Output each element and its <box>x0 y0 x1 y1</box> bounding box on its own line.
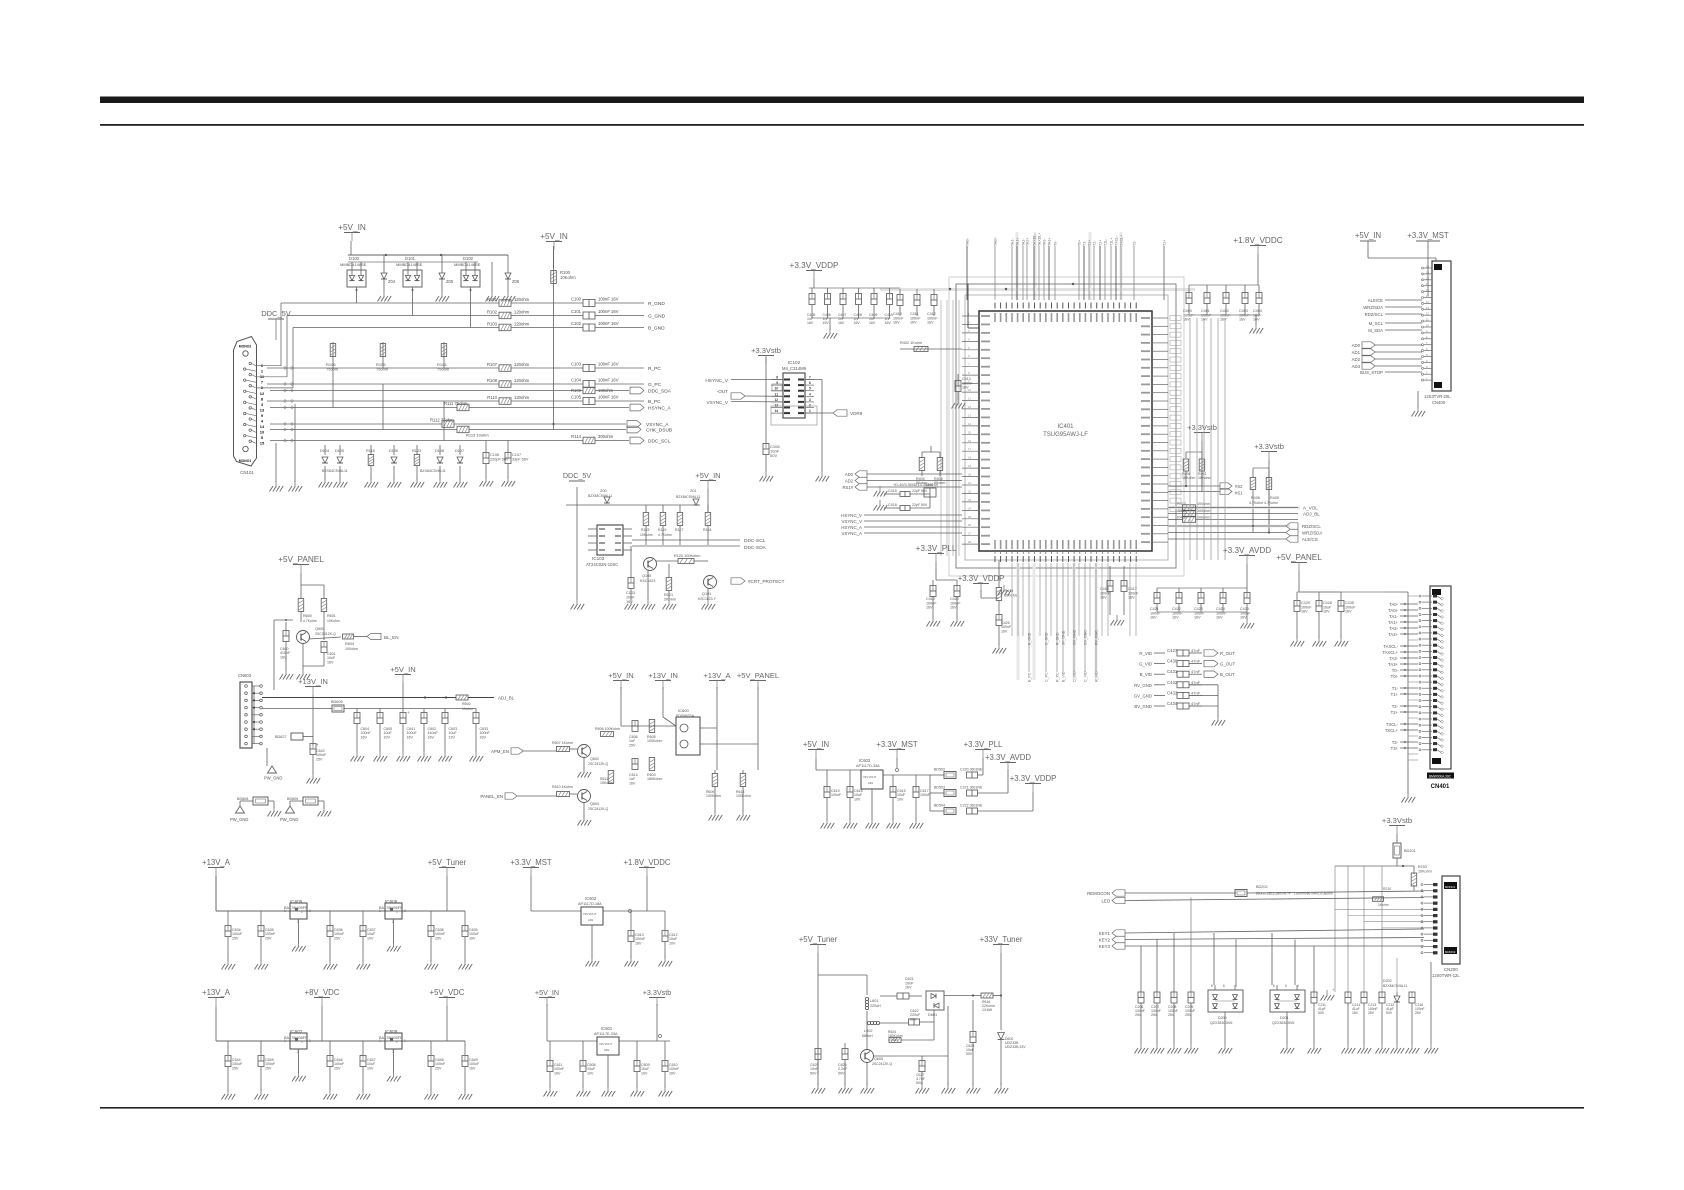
svg-text:10: 10 <box>260 430 265 435</box>
svg-text:+3.3Vstb: +3.3Vstb <box>1187 423 1217 432</box>
svg-text:BZX84C5V6L11: BZX84C5V6L11 <box>588 494 612 498</box>
svg-text:25V: 25V <box>435 936 442 940</box>
svg-text:16V: 16V <box>480 735 487 739</box>
svg-text:MONO1: MONO1 <box>239 459 252 463</box>
svg-text:AP1117D-18A: AP1117D-18A <box>578 902 602 906</box>
svg-text:M_SDA: M_SDA <box>1368 328 1383 333</box>
svg-text:26: 26 <box>968 523 972 527</box>
svg-text:16V: 16V <box>1128 596 1135 600</box>
svg-text:VIN VOUT: VIN VOUT <box>583 912 597 916</box>
svg-text:6: 6 <box>1211 984 1213 988</box>
svg-text:T2+: T2+ <box>1391 710 1399 715</box>
svg-text:+3.3V_MST: +3.3V_MST <box>510 858 552 867</box>
svg-text:25V: 25V <box>1151 1013 1158 1017</box>
svg-text:75ohm: 75ohm <box>376 367 389 372</box>
svg-text:+13V_A: +13V_A <box>202 988 231 997</box>
svg-text:MONO2: MONO2 <box>1445 950 1456 954</box>
svg-text:+5V_PANEL: +5V_PANEL <box>737 671 779 680</box>
svg-text:R118: R118 <box>703 528 711 532</box>
svg-text:VSYNC_A: VSYNC_A <box>646 422 669 428</box>
svg-text:D101: D101 <box>405 256 416 261</box>
svg-text:25V: 25V <box>232 1066 239 1070</box>
svg-text:DDC-SCL: DDC-SCL <box>744 538 766 544</box>
svg-text:LED: LED <box>1101 899 1110 904</box>
svg-text:25V: 25V <box>1135 1013 1142 1017</box>
svg-text:120ohm: 120ohm <box>514 395 530 400</box>
svg-text:CN400: CN400 <box>1432 400 1446 405</box>
svg-text:+5V_IN: +5V_IN <box>540 232 568 241</box>
svg-text:RDZ/SCL: RDZ/SCL <box>1302 524 1321 529</box>
svg-text:16V: 16V <box>1253 318 1260 322</box>
svg-text:Q100: Q100 <box>642 574 651 578</box>
svg-text:T2-: T2- <box>1133 240 1137 246</box>
svg-text:50V: 50V <box>966 1052 973 1056</box>
svg-text:B_GND: B_GND <box>648 326 665 332</box>
svg-text:24: 24 <box>968 506 972 510</box>
svg-text:9: 9 <box>776 381 778 385</box>
svg-text:T2+: T2+ <box>1163 240 1167 246</box>
svg-text:DDC_5V: DDC_5V <box>261 309 291 318</box>
svg-text:16V: 16V <box>962 386 969 390</box>
svg-text:D106: D106 <box>389 449 398 453</box>
svg-text:TA3-: TA3- <box>1389 656 1398 661</box>
svg-text:R606 100Kohm: R606 100Kohm <box>595 727 620 731</box>
svg-text:UDZ33B,33V: UDZ33B,33V <box>1005 1045 1026 1049</box>
svg-text:CN101: CN101 <box>240 470 254 475</box>
svg-text:#S2: #S2 <box>1235 484 1243 489</box>
svg-text:T1+: T1+ <box>1088 240 1092 246</box>
svg-text:R409: R409 <box>1270 496 1279 500</box>
svg-text:GV_GND: GV_GND <box>1073 629 1077 645</box>
svg-text:47nF: 47nF <box>1191 701 1201 706</box>
svg-text:R_PC: R_PC <box>648 366 661 372</box>
svg-text:G_PC: G_PC <box>648 382 662 388</box>
svg-text:50V: 50V <box>838 1071 845 1075</box>
svg-text:BMW000A,30C: BMW000A,30C <box>1429 775 1452 779</box>
svg-text:ADJ: ADJ <box>588 918 594 922</box>
svg-text:25V: 25V <box>316 757 323 761</box>
svg-text:TA2+: TA2+ <box>1026 238 1030 246</box>
svg-text:14: 14 <box>774 409 778 413</box>
svg-text:TA3+: TA3+ <box>1388 662 1398 667</box>
svg-text:BA178M09FP: BA178M09FP <box>284 906 308 910</box>
svg-text:16V: 16V <box>807 321 814 325</box>
svg-text:10Kohm: 10Kohm <box>560 275 576 280</box>
svg-text:TXCL-: TXCL- <box>1115 235 1119 246</box>
svg-text:R121: R121 <box>664 593 673 597</box>
svg-text:16V: 16V <box>927 321 934 325</box>
svg-text:-OUT: -OUT <box>717 389 728 394</box>
svg-text:WRZ/SDA: WRZ/SDA <box>1302 531 1322 536</box>
svg-text:17: 17 <box>968 447 972 451</box>
svg-text:25V: 25V <box>1168 1013 1175 1017</box>
svg-text:100nF 16V: 100nF 16V <box>598 377 619 382</box>
svg-text:+3.3V_AVDD: +3.3V_AVDD <box>1223 546 1271 555</box>
svg-text:ADJ_BL: ADJ_BL <box>1303 512 1320 517</box>
svg-text:16V: 16V <box>1239 318 1246 322</box>
svg-text:25: 25 <box>968 515 972 519</box>
svg-text:BD627: BD627 <box>275 735 287 739</box>
svg-text:5: 5 <box>809 387 811 391</box>
svg-text:R_VID: R_VID <box>1095 671 1099 682</box>
svg-text:Q602: Q602 <box>590 757 599 761</box>
svg-text:47nF: 47nF <box>1191 659 1201 664</box>
svg-text:120ohm: 120ohm <box>514 309 530 314</box>
svg-text:25V: 25V <box>1368 1011 1375 1015</box>
svg-text:10V: 10V <box>669 941 676 945</box>
svg-text:25V: 25V <box>334 936 341 940</box>
svg-text:TAXDL-: TAXDL- <box>1033 233 1037 246</box>
svg-text:13V: 13V <box>449 735 456 739</box>
svg-text:12: 12 <box>260 391 265 396</box>
svg-text:T2L+: T2L+ <box>1110 238 1114 246</box>
svg-text:220uH: 220uH <box>870 1004 881 1008</box>
svg-text:L601: L601 <box>870 999 878 1003</box>
svg-text:+3.3Vstb: +3.3Vstb <box>643 988 672 997</box>
svg-text:BZX84C5V6L11: BZX84C5V6L11 <box>1383 984 1407 988</box>
svg-text:47nF: 47nF <box>1191 648 1201 653</box>
svg-text:+5V_IN: +5V_IN <box>390 665 416 674</box>
svg-text:TXCL+: TXCL+ <box>1385 728 1399 733</box>
svg-text:KSC1623-Y: KSC1623-Y <box>698 597 717 601</box>
svg-text:10: 10 <box>774 387 778 391</box>
svg-text:+1.8V_VDDC: +1.8V_VDDC <box>1233 236 1282 245</box>
svg-text:10Kohm: 10Kohm <box>1418 869 1432 873</box>
svg-text:T2-: T2- <box>1392 704 1399 709</box>
svg-text:21: 21 <box>968 481 972 485</box>
svg-text:Z04: Z04 <box>388 279 396 284</box>
svg-text:680uH: 680uH <box>862 1034 873 1038</box>
svg-text:16V: 16V <box>361 735 368 739</box>
svg-text:IC607: IC607 <box>290 1029 303 1034</box>
svg-text:10V: 10V <box>641 1071 648 1075</box>
svg-text:T1+: T1+ <box>1391 692 1399 697</box>
svg-text:100ohm: 100ohm <box>345 647 358 651</box>
svg-text:DDC-SDA: DDC-SDA <box>744 545 767 551</box>
svg-text:Q603: Q603 <box>590 802 599 806</box>
svg-text:R610 1Kohm: R610 1Kohm <box>552 785 573 789</box>
svg-text:75ohm: 75ohm <box>326 367 339 372</box>
svg-text:BD502: BD502 <box>934 768 945 772</box>
svg-text:R110: R110 <box>487 395 497 400</box>
svg-text:ADJ: ADJ <box>604 1048 610 1052</box>
svg-text:16V: 16V <box>407 735 414 739</box>
svg-text:VDR9: VDR9 <box>850 411 863 416</box>
svg-text:BA178M05FP: BA178M05FP <box>379 1036 403 1040</box>
svg-text:TA2-: TA2- <box>1389 626 1398 631</box>
svg-text:IC603: IC603 <box>859 758 871 763</box>
svg-text:#CRT_PROTECT: #CRT_PROTECT <box>748 579 785 584</box>
svg-text:16V: 16V <box>635 941 642 945</box>
svg-text:R600: R600 <box>303 614 312 618</box>
svg-text:12S3TVR-20L: 12S3TVR-20L <box>1424 394 1451 399</box>
svg-text:+5V_PANEL: +5V_PANEL <box>278 555 324 564</box>
svg-text:IC102: IC102 <box>788 360 801 365</box>
svg-text:AD2: AD2 <box>1352 357 1361 362</box>
svg-text:19: 19 <box>968 464 972 468</box>
svg-text:REMOCON: REMOCON <box>1087 891 1110 896</box>
svg-text:MONO2: MONO2 <box>239 345 252 349</box>
svg-text:16V: 16V <box>1201 318 1208 322</box>
svg-text:100Kohm: 100Kohm <box>736 794 751 798</box>
svg-text:Q600: Q600 <box>315 627 324 631</box>
svg-text:C_VID: C_VID <box>1084 671 1088 682</box>
svg-text:1: 1 <box>809 409 811 413</box>
svg-text:R102: R102 <box>487 309 498 314</box>
svg-text:14: 14 <box>968 422 972 426</box>
svg-text:120ohm: 120ohm <box>514 362 530 367</box>
svg-text:BZX84C5V6L11: BZX84C5V6L11 <box>322 469 348 473</box>
svg-text:+3.3V_PLL: +3.3V_PLL <box>964 740 1003 749</box>
svg-text:16V: 16V <box>554 1071 561 1075</box>
svg-text:100Kohm: 100Kohm <box>706 794 721 798</box>
svg-text:TA3+: TA3+ <box>1048 238 1052 246</box>
svg-text:TA2+: TA2+ <box>1388 632 1398 637</box>
svg-text:C430: C430 <box>1167 659 1178 664</box>
svg-text:CN401: CN401 <box>1431 784 1450 790</box>
svg-text:C104: C104 <box>571 377 582 382</box>
svg-text:120ohm: 120ohm <box>514 378 530 383</box>
svg-text:C100: C100 <box>571 296 582 301</box>
svg-text:TA0-: TA0- <box>1389 602 1398 607</box>
svg-text:QZX363C5V6: QZX363C5V6 <box>1272 1021 1294 1025</box>
svg-text:100nF 16V: 100nF 16V <box>598 361 619 366</box>
svg-text:22: 22 <box>968 489 972 493</box>
svg-text:1Kohm: 1Kohm <box>1378 903 1389 907</box>
svg-text:1/16W: 1/16W <box>982 1008 993 1012</box>
svg-text:3: 3 <box>404 909 406 913</box>
svg-text:KEY1: KEY1 <box>1099 931 1111 936</box>
svg-text:R108: R108 <box>487 378 498 383</box>
svg-text:T0+: T0+ <box>1391 674 1399 679</box>
svg-text:18Kohm: 18Kohm <box>1198 476 1211 480</box>
svg-text:18: 18 <box>968 456 972 460</box>
svg-text:+3.3V_PLL: +3.3V_PLL <box>916 544 957 553</box>
svg-text:B_VID: B_VID <box>1062 671 1066 682</box>
svg-text:R_GND: R_GND <box>1056 632 1060 645</box>
svg-text:100nF 16V: 100nF 16V <box>598 296 619 301</box>
svg-text:C101: C101 <box>571 309 582 314</box>
svg-text:QZX363C5V6: QZX363C5V6 <box>1210 1021 1232 1025</box>
svg-text:R602: R602 <box>462 702 471 706</box>
svg-text:BD202: BD202 <box>1256 885 1268 889</box>
svg-text:15: 15 <box>968 430 972 434</box>
svg-text:16V: 16V <box>905 986 912 990</box>
svg-text:GV_GND: GV_GND <box>1134 693 1152 698</box>
svg-text:16V: 16V <box>823 321 830 325</box>
svg-text:C_GND: C_GND <box>1045 632 1049 645</box>
svg-text:50V: 50V <box>910 1017 917 1021</box>
svg-text:R109: R109 <box>571 388 582 393</box>
svg-text:300ohm: 300ohm <box>598 434 614 439</box>
svg-text:R123: R123 <box>412 449 421 453</box>
svg-text:BL_EN: BL_EN <box>384 635 399 640</box>
svg-text:16V: 16V <box>885 321 892 325</box>
svg-text:25V: 25V <box>435 1066 442 1070</box>
svg-text:HSYNC_V: HSYNC_V <box>705 378 728 384</box>
svg-text:D105: D105 <box>335 449 344 453</box>
svg-text:+3.3V_MST: +3.3V_MST <box>1407 231 1449 240</box>
svg-text:+13V_IN: +13V_IN <box>648 671 678 680</box>
svg-text:BA178M08FP: BA178M08FP <box>284 1036 308 1040</box>
svg-text:16V: 16V <box>1345 610 1352 614</box>
svg-text:10V: 10V <box>854 797 861 801</box>
svg-text:T0+: T0+ <box>1078 240 1082 246</box>
svg-text:B_PC: B_PC <box>1028 672 1032 682</box>
svg-text:L602: L602 <box>864 1029 872 1033</box>
svg-text:2Kohm: 2Kohm <box>664 597 676 601</box>
svg-text:25V: 25V <box>232 936 239 940</box>
svg-text:2SC2412K-Q: 2SC2412K-Q <box>872 1062 893 1066</box>
svg-text:100nF 16V: 100nF 16V <box>598 309 619 314</box>
svg-text:C102: C102 <box>571 321 582 326</box>
svg-text:R112 75ohm: R112 75ohm <box>430 418 454 423</box>
svg-text:BUS_STOP: BUS_STOP <box>1360 370 1383 375</box>
svg-text:R_OUT: R_OUT <box>1220 651 1235 656</box>
svg-text:+3.3Vstb: +3.3Vstb <box>751 346 781 355</box>
svg-text:47nF: 47nF <box>1191 680 1201 685</box>
svg-text:3: 3 <box>309 1039 311 1043</box>
svg-text:23: 23 <box>968 498 972 502</box>
svg-text:R103: R103 <box>487 321 498 326</box>
svg-text:IC103: IC103 <box>592 556 605 561</box>
svg-text:WRZ/SDA: WRZ/SDA <box>1363 305 1383 310</box>
svg-text:10V: 10V <box>587 1071 594 1075</box>
svg-text:+1.8V_VDDC: +1.8V_VDDC <box>623 858 670 867</box>
svg-text:3: 3 <box>404 1039 406 1043</box>
svg-text:C222 J601NE: C222 J601NE <box>960 804 983 808</box>
svg-text:16V: 16V <box>926 606 933 610</box>
svg-text:50V: 50V <box>770 453 777 458</box>
svg-text:47nF: 47nF <box>1191 669 1201 674</box>
svg-text:2SC2412K-Q: 2SC2412K-Q <box>588 807 609 811</box>
svg-text:MONO1: MONO1 <box>1445 885 1456 889</box>
svg-text:AD0: AD0 <box>1352 343 1361 348</box>
svg-text:AT24C02N-10SC: AT24C02N-10SC <box>586 562 618 567</box>
svg-text:T2+: T2+ <box>1099 240 1103 246</box>
svg-text:16V: 16V <box>280 655 287 659</box>
svg-text:10V: 10V <box>367 936 374 940</box>
svg-text:+5V_VDC: +5V_VDC <box>430 988 465 997</box>
svg-text:RV_GND: RV_GND <box>1134 683 1152 688</box>
svg-text:16V: 16V <box>1216 616 1223 620</box>
svg-text:+8V_VDC: +8V_VDC <box>305 988 340 997</box>
svg-text:D108: D108 <box>435 449 444 453</box>
svg-text:33pF 50V: 33pF 50V <box>512 457 529 461</box>
svg-text:+5V_IN: +5V_IN <box>535 988 559 997</box>
svg-text:1/16W: 1/16W <box>888 1038 899 1042</box>
svg-text:2: 2 <box>809 404 811 408</box>
svg-text:Z00: Z00 <box>600 489 607 493</box>
svg-text:TSUG95AWJ-LF: TSUG95AWJ-LF <box>1043 432 1088 438</box>
svg-text:+13V_A: +13V_A <box>202 858 231 867</box>
svg-text:2SC2412K-Q: 2SC2412K-Q <box>315 632 336 636</box>
svg-text:50V: 50V <box>1318 1011 1325 1015</box>
svg-text:4.7Kohm 4.7Kohm: 4.7Kohm 4.7Kohm <box>1249 501 1278 505</box>
svg-text:R113 10ohm: R113 10ohm <box>466 433 489 438</box>
svg-text:+5V_IN: +5V_IN <box>608 671 634 680</box>
svg-text:10V: 10V <box>384 735 391 739</box>
svg-text:100Kohm: 100Kohm <box>647 739 662 743</box>
svg-text:100nF: 100nF <box>920 793 931 797</box>
svg-text:100nF: 100nF <box>831 793 842 797</box>
svg-text:16V: 16V <box>1352 1011 1359 1015</box>
svg-text:TA1-: TA1- <box>1389 614 1398 619</box>
svg-text:10Kohm: 10Kohm <box>327 619 340 623</box>
svg-text:R101: R101 <box>487 297 498 302</box>
svg-text:120ohm: 120ohm <box>514 321 530 326</box>
svg-text:C431: C431 <box>1167 669 1178 674</box>
svg-text:A_VOL: A_VOL <box>1303 506 1318 511</box>
svg-text:HSYNC_V: HSYNC_V <box>841 513 862 518</box>
svg-text:22pF 50V: 22pF 50V <box>912 503 928 507</box>
svg-text:25V: 25V <box>1185 1013 1192 1017</box>
svg-text:16V: 16V <box>1100 596 1107 600</box>
svg-text:10Kohm: 10Kohm <box>640 533 653 537</box>
svg-text:7: 7 <box>809 376 811 380</box>
svg-text:180Kohm: 180Kohm <box>647 777 662 781</box>
svg-text:IC605: IC605 <box>290 899 303 904</box>
svg-text:T1-: T1- <box>1392 686 1399 691</box>
svg-text:16V: 16V <box>669 1071 676 1075</box>
svg-text:10Kohm: 10Kohm <box>600 781 613 785</box>
svg-text:16V: 16V <box>838 321 845 325</box>
svg-text:TAXCL+: TAXCL+ <box>1382 650 1398 655</box>
svg-text:RV_GND: RV_GND <box>1095 630 1099 645</box>
svg-text:FDS9933A: FDS9933A <box>676 714 695 718</box>
svg-text:ALE/CE: ALE/CE <box>1368 298 1383 303</box>
svg-text:IC606: IC606 <box>385 899 398 904</box>
svg-text:ADJ_BL: ADJ_BL <box>498 696 515 701</box>
svg-text:+5V_IN: +5V_IN <box>338 223 366 232</box>
svg-text:R402 1Kohm: R402 1Kohm <box>900 341 922 345</box>
svg-text:+5V_PANEL: +5V_PANEL <box>1276 553 1322 562</box>
svg-text:16V: 16V <box>1172 616 1179 620</box>
svg-text:RS1#: RS1# <box>843 485 854 490</box>
svg-text:+5V_Tuner: +5V_Tuner <box>428 858 467 867</box>
svg-text:+13V_IN: +13V_IN <box>298 677 328 686</box>
svg-text:C103: C103 <box>626 591 635 595</box>
svg-text:25V: 25V <box>265 936 272 940</box>
svg-text:47nF: 47nF <box>1191 690 1201 695</box>
svg-text:+3.3V_VDDP: +3.3V_VDDP <box>790 261 839 270</box>
svg-text:M_SCL: M_SCL <box>1369 321 1384 326</box>
svg-text:DDC_5V: DDC_5V <box>563 471 592 480</box>
svg-text:+33V_Tuner: +33V_Tuner <box>980 935 1023 944</box>
svg-text:R111 75ohm: R111 75ohm <box>444 401 468 406</box>
svg-text:TAXCL-: TAXCL- <box>1383 644 1398 649</box>
svg-text:C_PC: C_PC <box>1045 672 1049 682</box>
svg-text:TA3-: TA3- <box>1043 238 1047 246</box>
svg-text:ADJ: ADJ <box>868 781 874 785</box>
svg-text:IC600: IC600 <box>678 708 689 713</box>
svg-text:16V: 16V <box>629 781 636 785</box>
svg-text:C_VID: C_VID <box>1073 671 1077 682</box>
svg-text:T2-: T2- <box>1093 240 1097 246</box>
svg-text:16V: 16V <box>893 321 900 325</box>
svg-text:100nF 16V: 100nF 16V <box>598 321 619 326</box>
svg-text:TA1-: TA1- <box>1011 238 1015 246</box>
svg-text:VSYNC_V: VSYNC_V <box>842 519 863 524</box>
svg-text:8: 8 <box>776 376 778 380</box>
svg-text:+5V_IN: +5V_IN <box>803 740 829 749</box>
svg-text:B_VID: B_VID <box>1140 672 1152 677</box>
svg-text:C415: C415 <box>888 489 897 493</box>
svg-text:Z05: Z05 <box>446 279 454 284</box>
svg-text:11: 11 <box>775 392 779 396</box>
svg-text:R_PC: R_PC <box>1056 672 1060 682</box>
svg-text:11: 11 <box>968 397 971 401</box>
